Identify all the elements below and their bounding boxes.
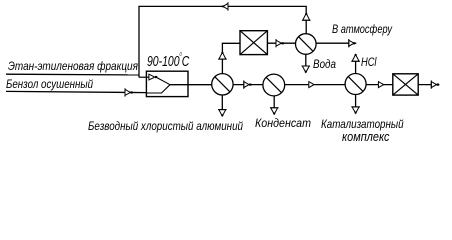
arrow: vent arrow to atmosphere xyxy=(349,39,355,47)
scrubber circle 2 xyxy=(296,34,317,55)
arrow: circle3 to circle4 arrow xyxy=(309,82,314,88)
arrow: benzene feed arrow xyxy=(125,88,133,96)
wire: circle3 condensate drain xyxy=(273,96,275,113)
separator circle 3 xyxy=(263,74,285,96)
reactor (alkylator) vessel xyxy=(146,71,188,96)
reactor internal Y-mixer upper branch xyxy=(156,77,170,85)
arrow: up arrow on scrubber riser xyxy=(302,13,311,20)
arrow: catalyst complex down arrow xyxy=(351,107,360,114)
arrow: up arrow on circle1 riser xyxy=(218,52,227,59)
condenser crossed box xyxy=(240,31,267,55)
arrow: aluminum chloride down arrow xyxy=(218,110,227,117)
wire: water drain below scrubber xyxy=(305,54,307,71)
arrow: water down arrow xyxy=(302,66,311,73)
arrow: condensate down arrow xyxy=(270,108,279,115)
reactor internal Y-mixer lower branch xyxy=(146,85,170,93)
label: 90-100 C xyxy=(147,55,189,70)
wire: recycle loop top line xyxy=(139,6,306,77)
wire: circle1 bottom drain xyxy=(221,95,223,115)
arrow: circle1 to circle3 arrow xyxy=(244,80,252,88)
label: anhydrous aluminum chloride xyxy=(88,120,243,132)
label: catalyst complex line1 xyxy=(321,118,404,130)
wire: circle1 riser to condenser xyxy=(222,43,240,73)
wire: HCl line above circle4 xyxy=(355,57,357,74)
arrow: recycle left arrow on top line xyxy=(222,2,228,10)
arrow: circle4 to settler arrow xyxy=(378,82,383,88)
label: condensate xyxy=(255,117,311,129)
reactor internal feed arrow xyxy=(139,74,157,80)
pump/separator circle 1 xyxy=(212,74,233,95)
label: water xyxy=(313,58,336,70)
wire: circle3 to circle4 xyxy=(285,84,345,86)
settler crossed box 2 xyxy=(393,74,418,95)
label: HCl xyxy=(361,56,377,68)
wire: condenser to scrubber xyxy=(267,42,295,44)
wire: final outlet xyxy=(418,84,439,86)
arrow: final outlet arrow xyxy=(431,80,439,88)
label: to atmosphere xyxy=(332,23,392,35)
wire: ethane-ethylene feed line xyxy=(6,73,139,76)
arrow: condenser to scrubber arrow xyxy=(276,39,284,47)
label: dried benzene xyxy=(6,78,93,90)
wire: vent line to atmosphere xyxy=(316,42,356,44)
wire: circle1 to circle3 xyxy=(233,84,263,86)
mixer circle 4 xyxy=(345,74,366,95)
wire: reactor outlet line xyxy=(170,84,212,86)
wire: benzene feed line xyxy=(6,91,147,92)
wire: circle4 to settler box xyxy=(366,84,393,86)
wire: circle4 catalyst drain xyxy=(355,95,357,112)
label: catalyst complex line2 xyxy=(342,130,389,143)
arrow: HCl up arrow xyxy=(351,54,360,61)
label: ethane-ethylene fraction xyxy=(8,60,138,72)
